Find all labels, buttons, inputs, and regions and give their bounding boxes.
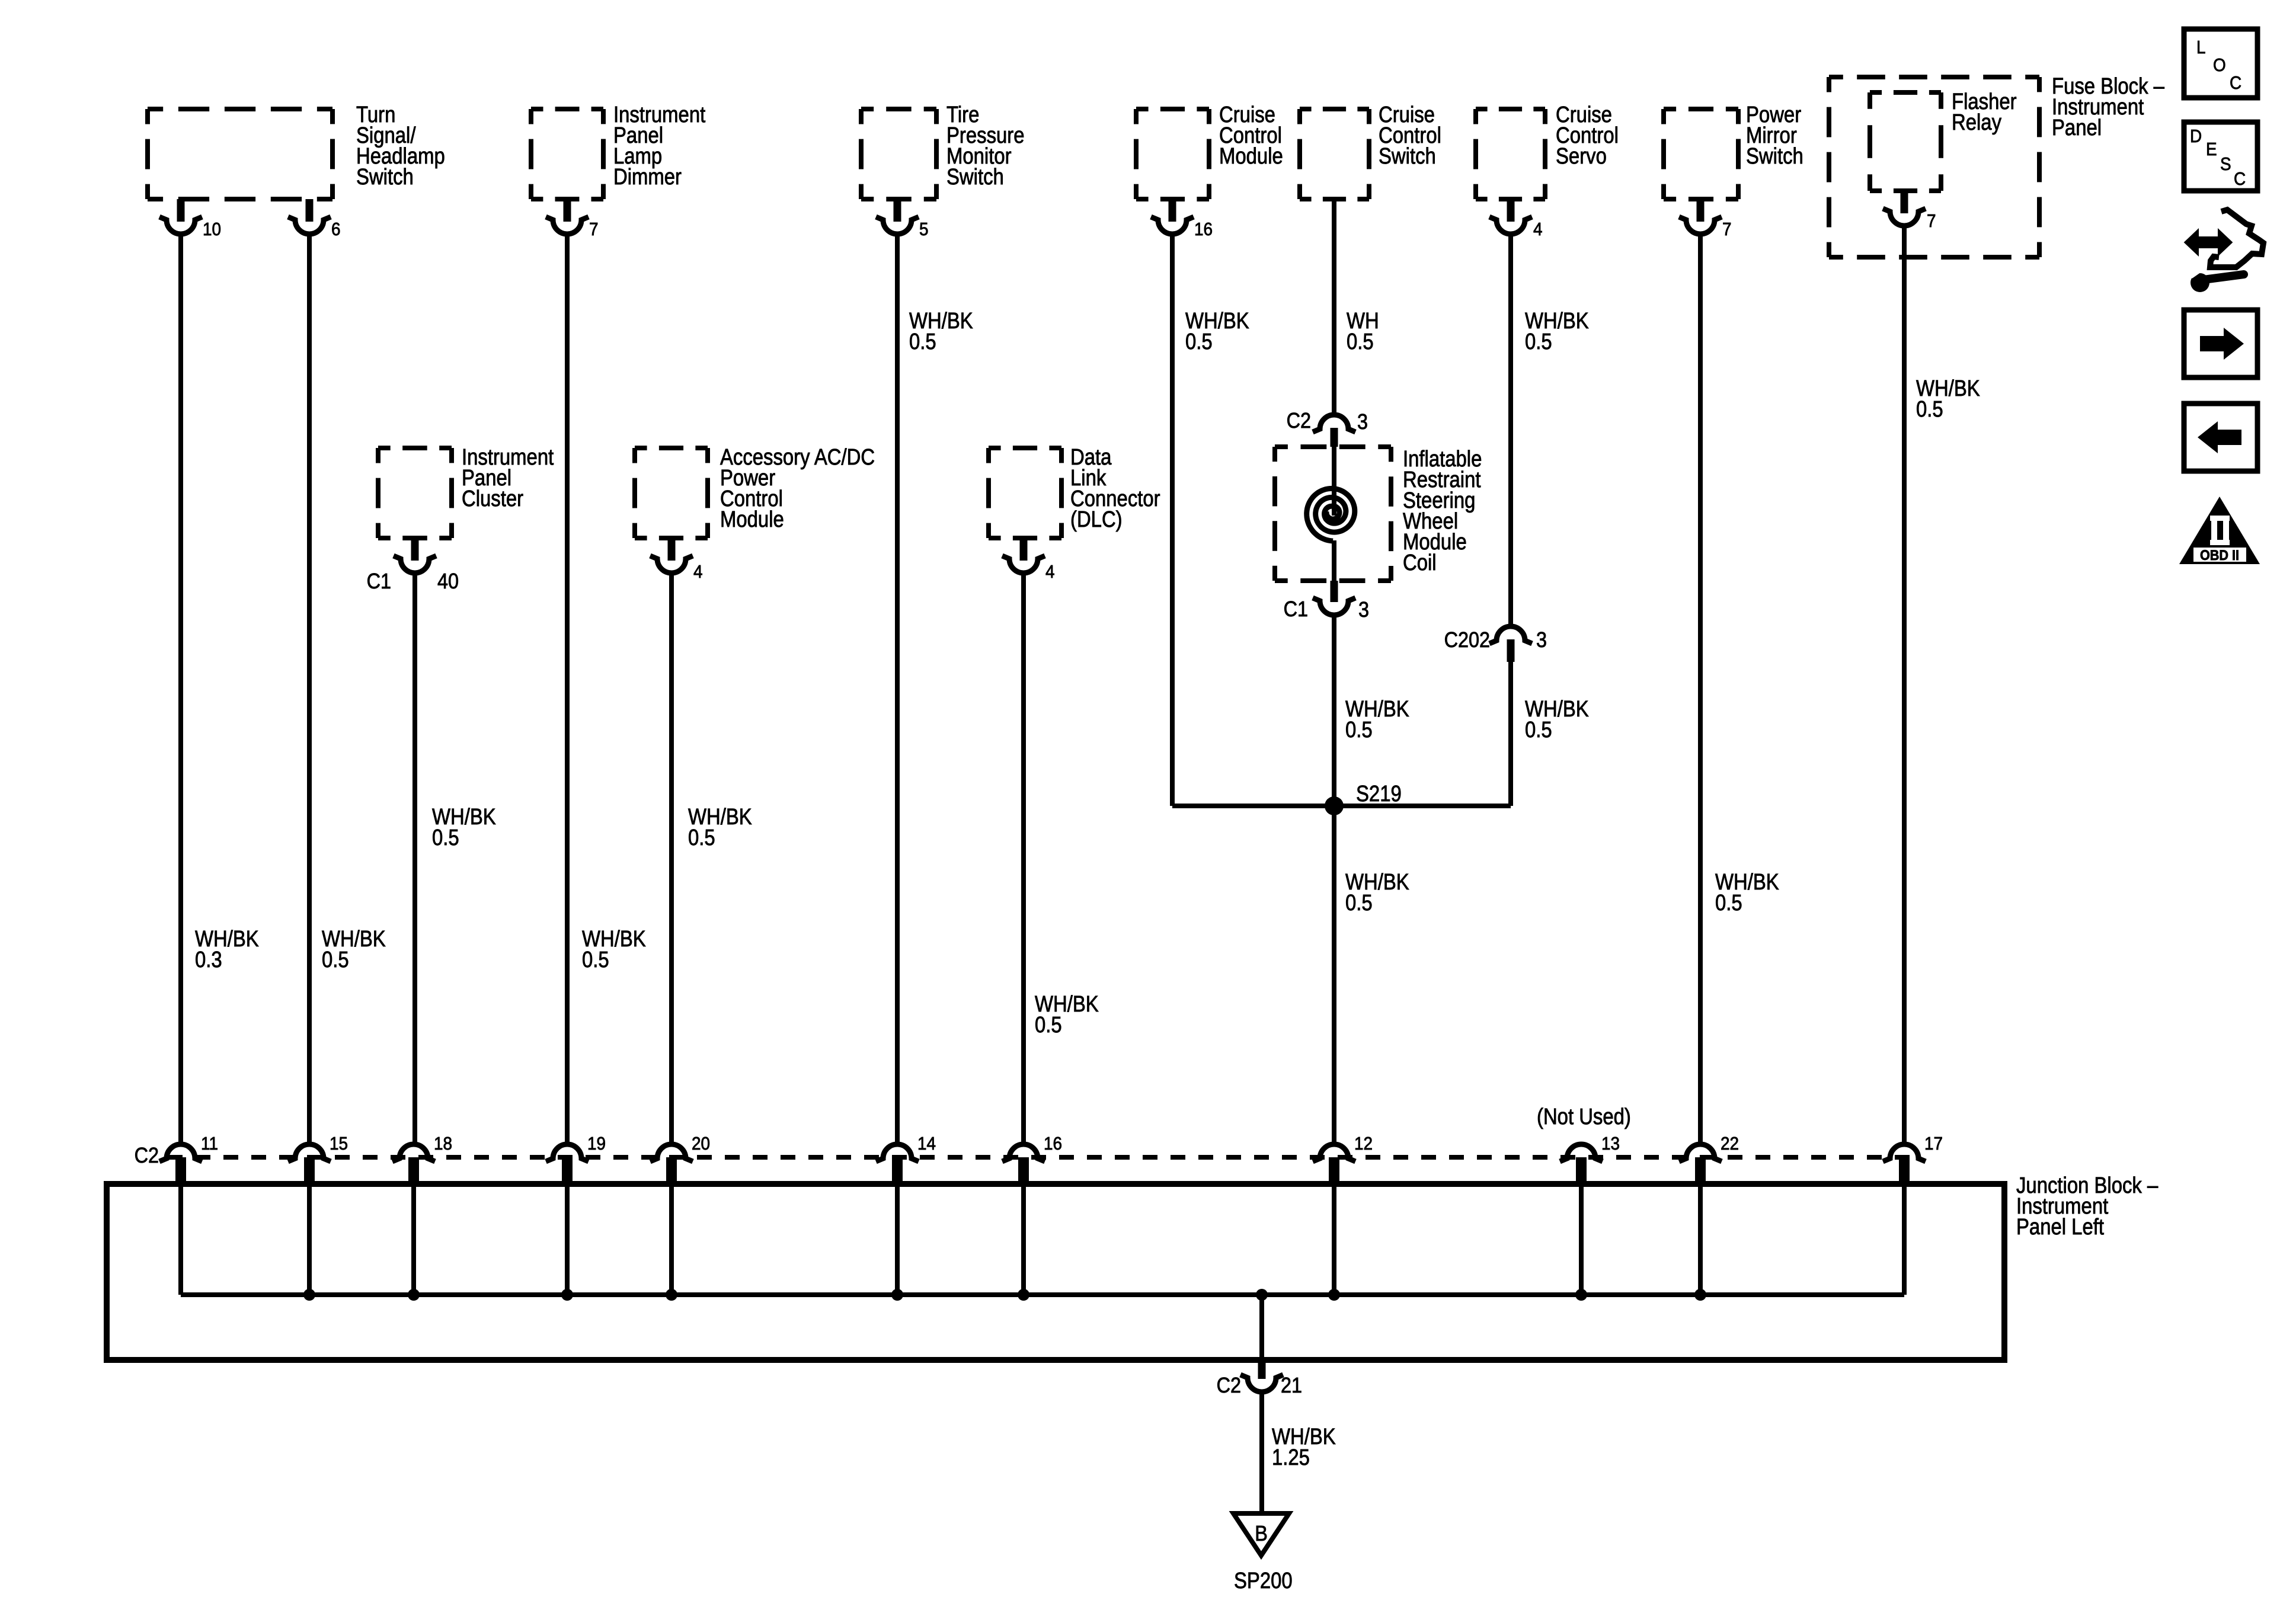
component box: Inflatable Restraint Steering Wheel Module Coil xyxy=(1275,444,1391,449)
svg-text:C202: C202 xyxy=(1444,628,1490,652)
svg-text:Switch: Switch xyxy=(946,164,1004,190)
svg-text:0.5: 0.5 xyxy=(909,329,936,354)
component box: Cruise Control Switch xyxy=(1300,107,1369,111)
splice S219 xyxy=(1325,796,1344,815)
junction block connector pin 22 xyxy=(1679,1144,1722,1161)
wire WH/BK 0.5 from coil C1 to splice S219 xyxy=(1332,616,1336,806)
internal wire from bus to output C2 pin 21 xyxy=(1259,1295,1264,1360)
icon: LOC box xyxy=(2184,29,2257,98)
junction dot on bus at x=957 xyxy=(561,1289,573,1301)
wire from coil spiral to C1 xyxy=(1332,540,1336,581)
component box: Data Link Connector (DLC) xyxy=(989,446,1061,450)
connector pin 16 of Cruise Control Module xyxy=(1169,199,1176,222)
svg-text:3: 3 xyxy=(1536,628,1547,652)
svg-text:21: 21 xyxy=(1281,1374,1302,1397)
svg-text:0.5: 0.5 xyxy=(1345,890,1373,916)
connector pin 10 of Turn Signal/Headlamp Switch xyxy=(177,199,185,222)
svg-text:OBD II: OBD II xyxy=(2200,547,2239,563)
svg-text:3: 3 xyxy=(1358,598,1369,622)
svg-text:0.5: 0.5 xyxy=(688,825,715,850)
wire WH/BK 0.3 from pin 10 to junction block pin 11 xyxy=(178,235,183,1143)
svg-text:7: 7 xyxy=(1722,219,1732,240)
junction dot on bus at x=2129 xyxy=(1256,1289,1268,1301)
svg-text:11: 11 xyxy=(201,1134,218,1154)
wire from C2 into coil spiral xyxy=(1332,447,1336,516)
junction block connector pin 11 xyxy=(159,1144,202,1161)
svg-text:17: 17 xyxy=(1924,1134,1943,1154)
connector C1 pin 40 of Instrument Panel Cluster xyxy=(411,538,419,561)
junction block connector pin 18 xyxy=(392,1144,435,1161)
wire WH/BK 0.5 from cruise control servo to connector C202 xyxy=(1508,235,1513,625)
svg-text:4: 4 xyxy=(1045,562,1055,582)
wire WH/BK 0.5 from instrument panel cluster to junction block pin 18 xyxy=(412,574,417,1143)
svg-text:20: 20 xyxy=(692,1134,710,1154)
svg-text:0.5: 0.5 xyxy=(1345,717,1373,742)
svg-text:Panel Left: Panel Left xyxy=(2016,1214,2104,1240)
svg-text:16: 16 xyxy=(1194,219,1213,240)
svg-text:13: 13 xyxy=(1601,1134,1620,1154)
svg-text:0.5: 0.5 xyxy=(1347,329,1374,354)
ground symbol B / splice pack SP200 xyxy=(1233,1513,1289,1555)
svg-text:22: 22 xyxy=(1721,1134,1739,1154)
wire WH/BK 0.5 from C202 to splice S219 xyxy=(1508,662,1513,806)
svg-text:14: 14 xyxy=(917,1134,936,1154)
icon: harness routing wrench symbol xyxy=(2186,232,2230,252)
svg-text:10: 10 xyxy=(203,219,221,240)
svg-text:C2: C2 xyxy=(135,1144,159,1167)
connector pin 7 of Instrument Panel Lamp Dimmer xyxy=(564,199,571,222)
component box: Instrument Panel Cluster xyxy=(378,446,452,450)
connector pin 4 of Data Link Connector xyxy=(1020,538,1028,561)
svg-text:15: 15 xyxy=(330,1134,348,1154)
wire WH 0.5 from cruise control switch to connector C2 pin 3 xyxy=(1332,199,1336,414)
junction block connector pin 20 xyxy=(650,1144,693,1161)
junction dot on bus at x=1514 xyxy=(891,1289,903,1301)
svg-text:7: 7 xyxy=(589,219,599,240)
junction dot on bus at x=2869 xyxy=(1694,1289,1706,1301)
internal bus wire of junction block xyxy=(181,1292,1904,1297)
junction block connector pin 12 xyxy=(1313,1144,1355,1161)
wire WH/BK 0.5 from lamp dimmer to junction block pin 19 xyxy=(565,235,570,1143)
svg-text:(DLC): (DLC) xyxy=(1070,507,1123,532)
svg-text:E: E xyxy=(2206,139,2217,160)
connector pin 7 of Power Mirror Switch xyxy=(1697,199,1705,222)
connector C2 pin 21 below junction block xyxy=(1258,1360,1266,1379)
svg-text:18: 18 xyxy=(434,1134,452,1154)
svg-text:Module: Module xyxy=(1219,143,1283,169)
junction block outline: Junction Block - Instrument Panel Left xyxy=(107,1184,2004,1360)
svg-text:Coil: Coil xyxy=(1403,550,1437,575)
connector pin 6 of Turn Signal/Headlamp Switch xyxy=(306,199,314,222)
junction dot on bus at x=2251 xyxy=(1328,1289,1340,1301)
svg-text:D: D xyxy=(2190,126,2202,147)
svg-text:C: C xyxy=(2230,73,2241,94)
junction block connector pin 17 xyxy=(1883,1144,1926,1161)
wire WH/BK 0.5 from S219 to junction block pin 12 xyxy=(1332,806,1336,1143)
svg-text:L: L xyxy=(2196,37,2206,58)
coil spiral symbol xyxy=(1307,488,1355,541)
internal wire from pin 16 to bus xyxy=(1021,1184,1026,1295)
svg-text:0.5: 0.5 xyxy=(1185,329,1213,354)
junction dot on bus at x=698 xyxy=(408,1289,420,1301)
svg-text:S219: S219 xyxy=(1356,781,1402,806)
component box: Flasher Relay xyxy=(1870,90,1941,95)
svg-text:6: 6 xyxy=(331,219,341,240)
connector pin 4 of Accessory AC/DC Power Control Module xyxy=(668,538,676,561)
junction block connector pin 19 xyxy=(546,1144,589,1161)
svg-text:C1: C1 xyxy=(367,569,391,593)
svg-text:0.3: 0.3 xyxy=(195,947,222,972)
svg-text:19: 19 xyxy=(587,1134,606,1154)
internal wire from pin 12 to bus xyxy=(1332,1184,1336,1295)
wire WH/BK 0.5 from accessory power control module to junction block pin 20 xyxy=(669,574,674,1143)
internal wire from pin 22 to bus xyxy=(1698,1184,1703,1295)
wire WH/BK 0.5 from tire pressure switch to junction block pin 14 xyxy=(895,235,900,1143)
svg-text:Servo: Servo xyxy=(1556,143,1607,169)
internal wire from pin 14 to bus xyxy=(895,1184,900,1295)
junction block connector pin 15 xyxy=(288,1144,331,1161)
wire WH/BK 1.25 from C2 pin 21 to ground SP200 xyxy=(1259,1393,1264,1513)
svg-text:Switch: Switch xyxy=(1746,143,1803,169)
svg-text:16: 16 xyxy=(1044,1134,1062,1154)
wire WH/BK 0.5 from DLC to junction block pin 16 xyxy=(1021,574,1026,1143)
svg-text:4: 4 xyxy=(693,562,703,582)
svg-text:40: 40 xyxy=(437,569,459,593)
internal wire from pin 15 to bus xyxy=(307,1184,312,1295)
svg-text:3: 3 xyxy=(1357,410,1368,434)
junction dot on bus at x=522 xyxy=(303,1289,315,1301)
wire WH/BK 0.5 from pin 6 to junction block pin 15 xyxy=(307,235,312,1143)
svg-text:0.5: 0.5 xyxy=(582,947,609,972)
component box: Tire Pressure Monitor Switch xyxy=(861,107,936,111)
connector pin 7 of Flasher Relay xyxy=(1901,191,1908,213)
junction dot on bus at x=2668 xyxy=(1575,1289,1587,1301)
wire horizontal joining module, coil and servo branches at S219 xyxy=(1172,804,1511,808)
internal wire from pin 11 to bus xyxy=(178,1184,183,1295)
svg-text:Switch: Switch xyxy=(356,164,414,190)
icon: OBD II triangle xyxy=(2179,497,2260,564)
svg-text:0.5: 0.5 xyxy=(1525,717,1552,742)
svg-text:0.5: 0.5 xyxy=(432,825,459,850)
svg-text:C1: C1 xyxy=(1284,597,1308,621)
svg-text:Module: Module xyxy=(720,507,784,532)
wire WH/BK 0.5 from flasher relay to junction block pin 17 xyxy=(1902,227,1907,1143)
svg-text:0.5: 0.5 xyxy=(322,947,349,972)
icon: left arrow box xyxy=(2184,404,2257,471)
icon: right arrow box xyxy=(2184,310,2257,377)
svg-text:C: C xyxy=(2234,169,2246,190)
component box: Power Mirror Switch xyxy=(1664,107,1738,111)
svg-text:4: 4 xyxy=(1533,219,1543,240)
component box: Instrument Panel Lamp Dimmer xyxy=(531,107,603,111)
wire WH/BK 0.5 from power mirror switch to junction block pin 22 xyxy=(1698,235,1703,1143)
svg-text:O: O xyxy=(2213,55,2226,76)
svg-text:0.5: 0.5 xyxy=(1715,890,1742,916)
internal wire from pin 19 to bus xyxy=(565,1184,570,1295)
internal wire from pin 13 to bus xyxy=(1579,1184,1584,1295)
svg-text:C2: C2 xyxy=(1217,1374,1241,1397)
svg-text:SP200: SP200 xyxy=(1234,1568,1293,1593)
svg-text:Relay: Relay xyxy=(1952,110,2001,135)
svg-text:Panel: Panel xyxy=(2052,115,2102,140)
component box: Accessory AC/DC Power Control Module xyxy=(635,446,708,450)
connector C1 pin 3 below steering wheel module coil xyxy=(1331,581,1338,602)
svg-text:B: B xyxy=(1255,1522,1268,1545)
junction dot on bus at x=1727 xyxy=(1018,1289,1029,1301)
svg-text:(Not Used): (Not Used) xyxy=(1537,1104,1631,1129)
svg-text:5: 5 xyxy=(919,219,929,240)
svg-text:Dimmer: Dimmer xyxy=(613,164,682,190)
connector C202 pin 3 xyxy=(1489,626,1532,644)
component box: Cruise Control Module xyxy=(1136,107,1209,111)
wire WH/BK 0.5 from cruise control module to splice S219 xyxy=(1170,235,1175,806)
svg-text:Cluster: Cluster xyxy=(462,486,523,511)
internal wire from pin 18 to bus xyxy=(411,1184,416,1295)
junction block connector C2 dashed interface line xyxy=(168,1155,1918,1160)
icon: DESC box xyxy=(2184,122,2257,191)
connector pin 4 of Cruise Control Servo xyxy=(1507,199,1515,222)
connector pin 5 of Tire Pressure Monitor Switch xyxy=(894,199,901,222)
component box: Turn Signal/Headlamp Switch xyxy=(148,107,332,111)
component box: Cruise Control Servo xyxy=(1476,107,1545,111)
junction block connector pin 16 xyxy=(1002,1144,1045,1161)
svg-text:C2: C2 xyxy=(1287,409,1311,433)
internal wire from pin 17 to bus xyxy=(1902,1184,1907,1295)
internal wire from pin 20 to bus xyxy=(669,1184,674,1295)
svg-text:1.25: 1.25 xyxy=(1272,1445,1310,1470)
svg-text:0.5: 0.5 xyxy=(1035,1012,1062,1038)
component box: Fuse Block - Instrument Panel xyxy=(1829,75,2039,79)
svg-text:7: 7 xyxy=(1927,211,1936,232)
svg-text:12: 12 xyxy=(1354,1134,1373,1154)
junction block connector pin 14 xyxy=(876,1144,919,1161)
junction block connector pin 13 xyxy=(1560,1144,1603,1161)
svg-text:S: S xyxy=(2220,154,2231,175)
svg-text:0.5: 0.5 xyxy=(1525,329,1552,354)
junction dot on bus at x=1133 xyxy=(666,1289,677,1301)
connector C2 pin 3 above steering wheel module coil xyxy=(1313,415,1355,432)
svg-text:Switch: Switch xyxy=(1379,143,1436,169)
svg-text:0.5: 0.5 xyxy=(1916,396,1943,422)
